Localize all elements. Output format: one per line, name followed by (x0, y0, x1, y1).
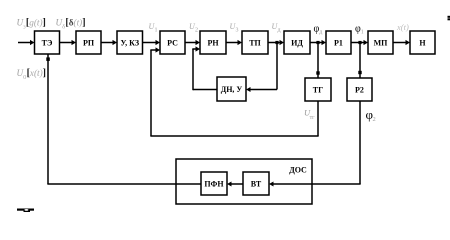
wire input to TE (18, 40, 35, 45)
block ТГ (305, 78, 331, 101)
block У, КЗ (117, 31, 143, 54)
svg-text:Р1: Р1 (334, 39, 343, 48)
block ТЭ (35, 31, 60, 54)
label Uз[g(t)] (17, 18, 46, 31)
svg-text:РС: РС (167, 39, 178, 48)
wire ТП to ИД (268, 40, 284, 45)
svg-text:2: 2 (373, 116, 376, 123)
wire МП to Н (393, 40, 410, 45)
block ПФН (201, 172, 227, 195)
block ТП (242, 31, 268, 54)
wire РС to РН (185, 40, 200, 45)
svg-text:МП: МП (374, 39, 389, 48)
svg-text:РН: РН (207, 39, 219, 48)
svg-text:ТЭ: ТЭ (42, 39, 53, 48)
wire Р1 to МП (351, 40, 368, 45)
block ВТ (243, 172, 269, 195)
wire У,КЗ to РС (143, 40, 161, 45)
block ИД (284, 31, 310, 54)
svg-text:ИД: ИД (291, 39, 303, 48)
node tap ТП output (275, 41, 278, 44)
block Р1 (326, 31, 351, 54)
node tap ИД output (316, 41, 319, 44)
svg-text:ДН, У: ДН, У (221, 85, 243, 94)
label U2 (189, 22, 198, 34)
svg-text:ДОС: ДОС (289, 166, 307, 175)
svg-text:РП: РП (83, 39, 95, 48)
block РП (76, 31, 101, 54)
wire down to Р2 (358, 43, 361, 79)
wire ТГ output to РС (150, 47, 318, 136)
wire tap down to ДН,У input (246, 43, 277, 93)
block ДН, У (217, 77, 246, 101)
label Uд (272, 22, 281, 34)
svg-text:1: 1 (361, 30, 364, 36)
wire РН to ТП (226, 40, 242, 45)
label φ1 (355, 24, 364, 36)
block РН (200, 31, 226, 54)
wire Р2 output down to ДОС (269, 101, 361, 187)
wire РП to У,КЗ (101, 40, 117, 45)
block Н (410, 31, 435, 54)
label x(t) (396, 22, 409, 32)
wire down to ТГ (316, 43, 319, 79)
svg-text:д: д (278, 28, 281, 34)
svg-text:ВТ: ВТ (251, 180, 262, 189)
svg-text:Р2: Р2 (355, 86, 364, 95)
svg-text:3: 3 (236, 28, 239, 34)
wire ДН,У output to РН (192, 46, 217, 90)
svg-text:Н: Н (419, 39, 426, 48)
wire ТЭ to РП (60, 40, 77, 45)
label U0[x(t)] (17, 68, 47, 81)
label U1 (149, 22, 158, 34)
frame ДОС (176, 159, 312, 204)
svg-text:1: 1 (155, 28, 158, 34)
label Uтг (304, 108, 315, 121)
svg-text:ТГ: ТГ (313, 86, 323, 95)
svg-text:2: 2 (195, 28, 198, 34)
label φ2 (366, 107, 376, 123)
block Р2 (347, 78, 372, 101)
label Uδ[δ(t)] (56, 18, 86, 31)
svg-text:ТП: ТП (249, 39, 261, 48)
wire ИД to Р1 (310, 40, 326, 45)
mark bottom-left (17, 209, 34, 213)
wire ВТ to ПФН (227, 182, 243, 187)
svg-text:тг: тг (310, 115, 316, 121)
label φд (314, 24, 323, 36)
label U3 (230, 22, 239, 34)
node tap Р1 output (358, 41, 361, 44)
svg-text:У, КЗ: У, КЗ (121, 39, 140, 48)
block МП (368, 31, 393, 54)
svg-text:д: д (319, 30, 322, 36)
svg-text:x(t): x(t) (396, 22, 409, 32)
block РС (160, 31, 185, 54)
svg-text:ПФН: ПФН (204, 180, 224, 189)
mark top-right (448, 16, 450, 20)
wire ПФН output to ТЭ (46, 54, 201, 184)
